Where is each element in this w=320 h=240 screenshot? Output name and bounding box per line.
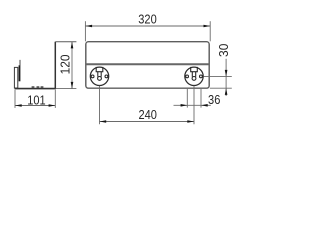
keyhole right slot	[191, 67, 198, 77]
arrow 120 up	[71, 42, 74, 49]
extension line 120 top	[55, 41, 76, 43]
extension line 120 bottom	[56, 88, 77, 90]
keyhole mount right: circle	[185, 67, 203, 85]
arrow 30 top outside	[225, 70, 228, 77]
extension line 30 top	[204, 76, 232, 78]
extension line 36 left	[186, 89, 188, 108]
extension line 240 right	[193, 86, 195, 124]
svg-text:320: 320	[138, 12, 157, 27]
side view front lip plate	[14, 67, 17, 88]
keyhole right step	[190, 71, 198, 73]
dimension line 120	[71, 42, 73, 89]
dimension line 101	[15, 105, 55, 107]
extension line 30 bottom	[210, 87, 232, 89]
extension line 36 right	[200, 89, 202, 108]
side view bracket bar	[19, 65, 21, 81]
extension line 320 left	[84, 21, 86, 41]
dimension line 36 tails	[174, 104, 211, 106]
arrow 120 down	[71, 82, 74, 89]
side view hook line	[19, 60, 21, 66]
arrow 36 right outside	[201, 104, 208, 107]
arrow 320 left	[85, 25, 92, 28]
arrow 101 right	[49, 104, 56, 107]
keyhole left ear west	[91, 75, 94, 78]
side view bottom shelf edge	[15, 88, 56, 90]
side view back panel	[54, 42, 56, 89]
svg-text:36: 36	[208, 92, 221, 107]
keyhole left step	[96, 71, 104, 73]
keyhole right screw circle	[192, 77, 196, 81]
keyhole left slot	[96, 67, 103, 77]
front view outline	[86, 42, 209, 88]
arrow 320 right	[204, 25, 211, 28]
keyhole right ear west	[186, 75, 189, 78]
svg-text:240: 240	[138, 107, 157, 122]
svg-text:120: 120	[58, 54, 73, 74]
extension line 240 left	[99, 86, 101, 124]
arrow 240 left	[100, 120, 107, 123]
extension line 101 left	[14, 90, 16, 108]
svg-text:30: 30	[217, 44, 232, 57]
arrow 36 left outside	[181, 104, 188, 107]
arrow 101 left	[15, 104, 22, 107]
keyhole mount left: circle	[90, 67, 108, 85]
keyhole right ear east	[200, 75, 203, 78]
svg-text:101: 101	[27, 92, 46, 107]
dimension line 240	[100, 121, 195, 123]
keyhole left ear east	[105, 75, 108, 78]
front view rail line	[86, 63, 209, 65]
extension line 101 right	[54, 90, 56, 108]
extension line 320 right	[209, 21, 211, 41]
keyhole left screw circle	[98, 77, 102, 81]
side view drain dashes	[32, 86, 44, 88]
arrow 30 bottom outside	[225, 88, 228, 95]
arrow 240 right	[187, 120, 194, 123]
dimension line 320	[85, 25, 210, 27]
dimension line 30	[225, 59, 227, 96]
